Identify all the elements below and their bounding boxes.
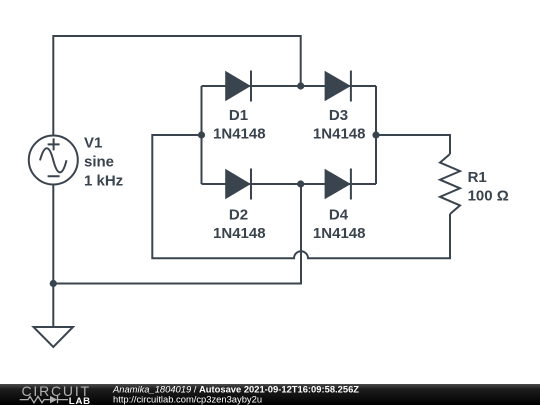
- svg-text:D3: D3: [329, 107, 348, 124]
- svg-text:1N4148: 1N4148: [213, 225, 266, 242]
- svg-text:100 Ω: 100 Ω: [468, 188, 509, 205]
- svg-text:D1: D1: [229, 107, 248, 124]
- svg-text:1N4148: 1N4148: [313, 225, 366, 242]
- svg-text:1N4148: 1N4148: [213, 126, 266, 143]
- svg-text:sine: sine: [84, 154, 114, 171]
- svg-text:D4: D4: [329, 207, 349, 224]
- svg-text:http://circuitlab.com/cp3zen3a: http://circuitlab.com/cp3zen3ayby2u: [113, 394, 262, 405]
- svg-text:D2: D2: [229, 207, 248, 224]
- svg-text:R1: R1: [468, 169, 487, 186]
- svg-text:1N4148: 1N4148: [313, 126, 366, 143]
- svg-text:V1: V1: [84, 135, 102, 152]
- svg-text:LAB: LAB: [69, 396, 91, 405]
- svg-text:1 kHz: 1 kHz: [84, 173, 123, 190]
